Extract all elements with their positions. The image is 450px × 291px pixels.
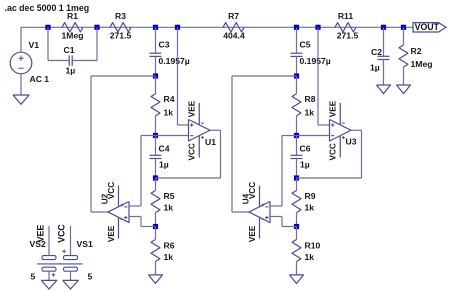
node B junction [153, 73, 158, 78]
node B2 junction [294, 73, 299, 78]
svg-text:1k: 1k [164, 252, 174, 262]
svg-text:VEE: VEE [107, 225, 116, 242]
junction JB2 [315, 25, 320, 30]
svg-text:VEE: VEE [329, 100, 338, 117]
resistor R11 [335, 11, 358, 41]
wire R6 to ground [155, 262, 157, 275]
svg-text:1µ: 1µ [370, 63, 380, 73]
junction JB [175, 25, 180, 30]
wire U4 top input to node Y1 row [270, 136, 297, 207]
svg-text:VEE: VEE [248, 225, 257, 242]
svg-text:1µ: 1µ [300, 160, 310, 170]
svg-text:C5: C5 [300, 40, 311, 50]
resistor R4 [151, 94, 175, 118]
wire node B2 to U4 output loop [232, 76, 297, 212]
svg-text:R5: R5 [164, 191, 175, 201]
voltage source V1 [10, 40, 49, 84]
svg-text:R10: R10 [305, 241, 321, 251]
wire V1 bottom to ground [20, 74, 22, 95]
wire C6 to node Y2 [296, 159, 298, 179]
svg-text:VEE: VEE [35, 225, 45, 243]
svg-text:R2: R2 [411, 46, 422, 56]
wire V1 top to rail [20, 27, 22, 52]
wire C3 to node B [155, 56, 157, 76]
capacitor C4 [150, 144, 170, 170]
wire C4 to node X2 [155, 159, 157, 179]
svg-text:VCC: VCC [188, 143, 197, 160]
svg-text:1k: 1k [305, 108, 315, 118]
wire JA down to C3 [155, 27, 157, 53]
wire top rail [21, 26, 413, 28]
voltage source VS1 [57, 224, 93, 282]
svg-text:C1: C1 [64, 45, 75, 55]
ground under C2 [377, 85, 391, 94]
svg-text:R6: R6 [164, 241, 175, 251]
svg-text:1k: 1k [305, 203, 315, 213]
voltage source VS2 [30, 225, 62, 282]
capacitor C2 [370, 47, 390, 73]
svg-text:AC 1: AC 1 [30, 74, 50, 84]
wire X1 to U1 inverting input [156, 135, 189, 137]
resistor R10 [292, 240, 320, 263]
svg-text:R11: R11 [338, 11, 354, 21]
svg-text:1Meg: 1Meg [62, 31, 84, 41]
node Y1 junction [294, 133, 299, 138]
wire U4 bottom input to node Y3 [270, 217, 297, 227]
wire node B to U2 output loop [91, 76, 156, 212]
svg-text:VCC: VCC [329, 143, 338, 160]
svg-text:C3: C3 [159, 40, 170, 50]
wire node B2 to R8 [296, 76, 298, 94]
svg-text:R7: R7 [228, 11, 239, 21]
svg-text:1Meg: 1Meg [411, 59, 433, 69]
svg-text:U3: U3 [346, 137, 357, 147]
node X2 junction [153, 175, 158, 180]
svg-text:271.5: 271.5 [110, 31, 132, 41]
wire JB down to U1 non-inverting input [178, 27, 189, 125]
wire JB2 down to U3 non-inverting input [318, 27, 330, 125]
op-amp U1 [188, 100, 217, 160]
wire U3 output to node Y2 [297, 130, 362, 178]
capacitor C6 [291, 144, 311, 170]
svg-text:1µ: 1µ [66, 66, 76, 76]
ground under VS1 [63, 280, 79, 289]
wire JC2 down to C2 [383, 27, 385, 56]
svg-text:1k: 1k [305, 252, 315, 262]
junction JA [153, 25, 158, 30]
capacitor C5 [291, 40, 331, 67]
svg-text:VOUT: VOUT [415, 22, 440, 32]
junction J1 [45, 25, 50, 30]
svg-text:1k: 1k [164, 203, 174, 213]
junction J2 [94, 25, 99, 30]
spice directive .ac dec 5000 1 1meg [5, 3, 90, 13]
wire R10 to ground [296, 262, 298, 275]
wire Y2 to R9 [296, 178, 298, 191]
svg-text:C2: C2 [371, 47, 382, 57]
resistor R3 [110, 11, 132, 41]
wire U2 top input to node X1 row [129, 136, 156, 207]
op-amp U4 [242, 182, 270, 242]
wire Y3 to R10 [296, 227, 298, 240]
svg-text:271.5: 271.5 [337, 31, 359, 41]
resistor R6 [151, 240, 175, 263]
svg-text:5: 5 [88, 272, 93, 282]
svg-text:R9: R9 [305, 191, 316, 201]
wire R2 to ground [403, 67, 405, 85]
svg-text:5: 5 [31, 272, 36, 282]
wire R5 to node X3 [155, 213, 157, 227]
svg-text:0.1957µ: 0.1957µ [300, 56, 331, 66]
wire R8 to node Y1 [296, 116, 298, 136]
wire J2 down to C1 [96, 27, 98, 60]
node Y3 junction [294, 224, 299, 229]
wire JD2 down to R2 [403, 27, 405, 45]
resistor R1 [62, 11, 84, 41]
wire X3 to R6 [155, 227, 157, 240]
junction JD2 [401, 25, 406, 30]
ground under R6 [149, 275, 163, 284]
svg-text:R1: R1 [67, 11, 78, 21]
svg-text:1µ: 1µ [159, 160, 169, 170]
wire node B to R4 [155, 76, 157, 94]
ground under R10 [290, 275, 304, 284]
ground under V1 [13, 95, 29, 104]
capacitor C1 [64, 45, 76, 76]
svg-text:VCC: VCC [57, 224, 67, 243]
wire U2 bottom input to node X3 [129, 217, 156, 227]
svg-text:R8: R8 [305, 94, 316, 104]
wire C2 to ground [383, 60, 385, 86]
svg-text:V1: V1 [29, 40, 40, 50]
wire R9 to node Y3 [296, 213, 298, 227]
op-amp U3 [329, 100, 357, 160]
ground under R2 [397, 85, 411, 94]
svg-text:VEE: VEE [188, 100, 197, 117]
net label VOUT [413, 22, 446, 32]
svg-text:C4: C4 [159, 144, 170, 154]
wire C1 left lead [48, 60, 69, 62]
node Y2 junction [294, 175, 299, 180]
resistor R2 [399, 45, 432, 69]
resistor R5 [151, 191, 175, 213]
ground under VS2 [41, 280, 57, 289]
svg-text:R4: R4 [164, 94, 175, 104]
svg-text:C6: C6 [300, 144, 311, 154]
capacitor C3 [150, 40, 190, 67]
svg-text:404.4: 404.4 [223, 31, 245, 41]
resistor R9 [292, 191, 316, 213]
svg-text:VS1: VS1 [77, 239, 93, 249]
wire R4 to node X1 [155, 116, 157, 136]
wire JA2 down to C5 [296, 27, 298, 53]
resistor R7 [223, 11, 245, 41]
op-amp U2 [101, 182, 129, 242]
node X1 junction [153, 133, 158, 138]
wire Y1 down to C6 [296, 136, 298, 156]
node X3 junction [153, 224, 158, 229]
wire C5 to node B2 [296, 56, 298, 76]
svg-text:R3: R3 [115, 11, 126, 21]
wire U1 output to node X2 [156, 130, 221, 178]
wire X2 to R5 [155, 178, 157, 191]
wire C1 right lead [72, 60, 97, 62]
svg-text:0.1957µ: 0.1957µ [159, 56, 190, 66]
junction JA2 [294, 25, 299, 30]
svg-text:1k: 1k [164, 108, 174, 118]
resistor R8 [292, 94, 316, 118]
svg-text:U2: U2 [101, 193, 110, 204]
svg-text:U4: U4 [242, 193, 251, 204]
wire J1 down to C1 [47, 27, 49, 60]
junction JC2 [381, 25, 386, 30]
wire Y1 to U3 inverting input [297, 135, 330, 137]
wire X1 down to C4 [155, 136, 157, 156]
svg-text:U1: U1 [205, 137, 216, 147]
